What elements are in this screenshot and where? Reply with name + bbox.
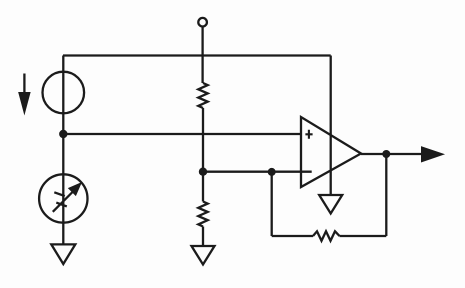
wire feedback bottom left bbox=[272, 235, 313, 237]
resistor R2 bbox=[198, 202, 207, 227]
wire feedback bottom right bbox=[340, 235, 387, 237]
wire feedback left drop bbox=[271, 172, 273, 236]
current source I1 bbox=[43, 72, 85, 114]
plus label bbox=[305, 130, 312, 139]
node C (junction dot) bbox=[268, 168, 276, 176]
ground (op-amp) bbox=[319, 195, 342, 214]
terminal input (open circle) bbox=[198, 18, 207, 27]
wire left column bbox=[62, 56, 64, 245]
wire R2 to ground bbox=[202, 227, 204, 247]
wire node A to op-amp +in bbox=[63, 133, 301, 135]
resistor R1 bbox=[198, 83, 207, 108]
noise source arrow bbox=[53, 189, 76, 212]
wire feedback right riser bbox=[385, 154, 387, 236]
ground (middle) bbox=[192, 246, 215, 265]
op-amp U1 bbox=[301, 117, 361, 187]
wire terminal to resistor R1 bbox=[201, 27, 203, 84]
wire top rail down through op-amp bbox=[330, 56, 332, 196]
wire node B to op-amp -in bbox=[203, 171, 312, 173]
wire top rail bbox=[63, 54, 331, 56]
node OUT (junction dot) bbox=[382, 150, 390, 158]
noise current source I2 bbox=[39, 174, 87, 222]
node B (junction dot) bbox=[199, 168, 207, 176]
ground (left) bbox=[51, 244, 75, 264]
node A (junction dot) bbox=[59, 130, 67, 138]
resistor RF bbox=[313, 231, 340, 241]
wire op-amp output bbox=[361, 153, 422, 155]
wire node B to resistor R2 bbox=[202, 172, 204, 202]
current direction arrow bbox=[23, 74, 25, 95]
output arrowhead bbox=[422, 147, 444, 162]
wire R1 to node B bbox=[202, 108, 204, 172]
